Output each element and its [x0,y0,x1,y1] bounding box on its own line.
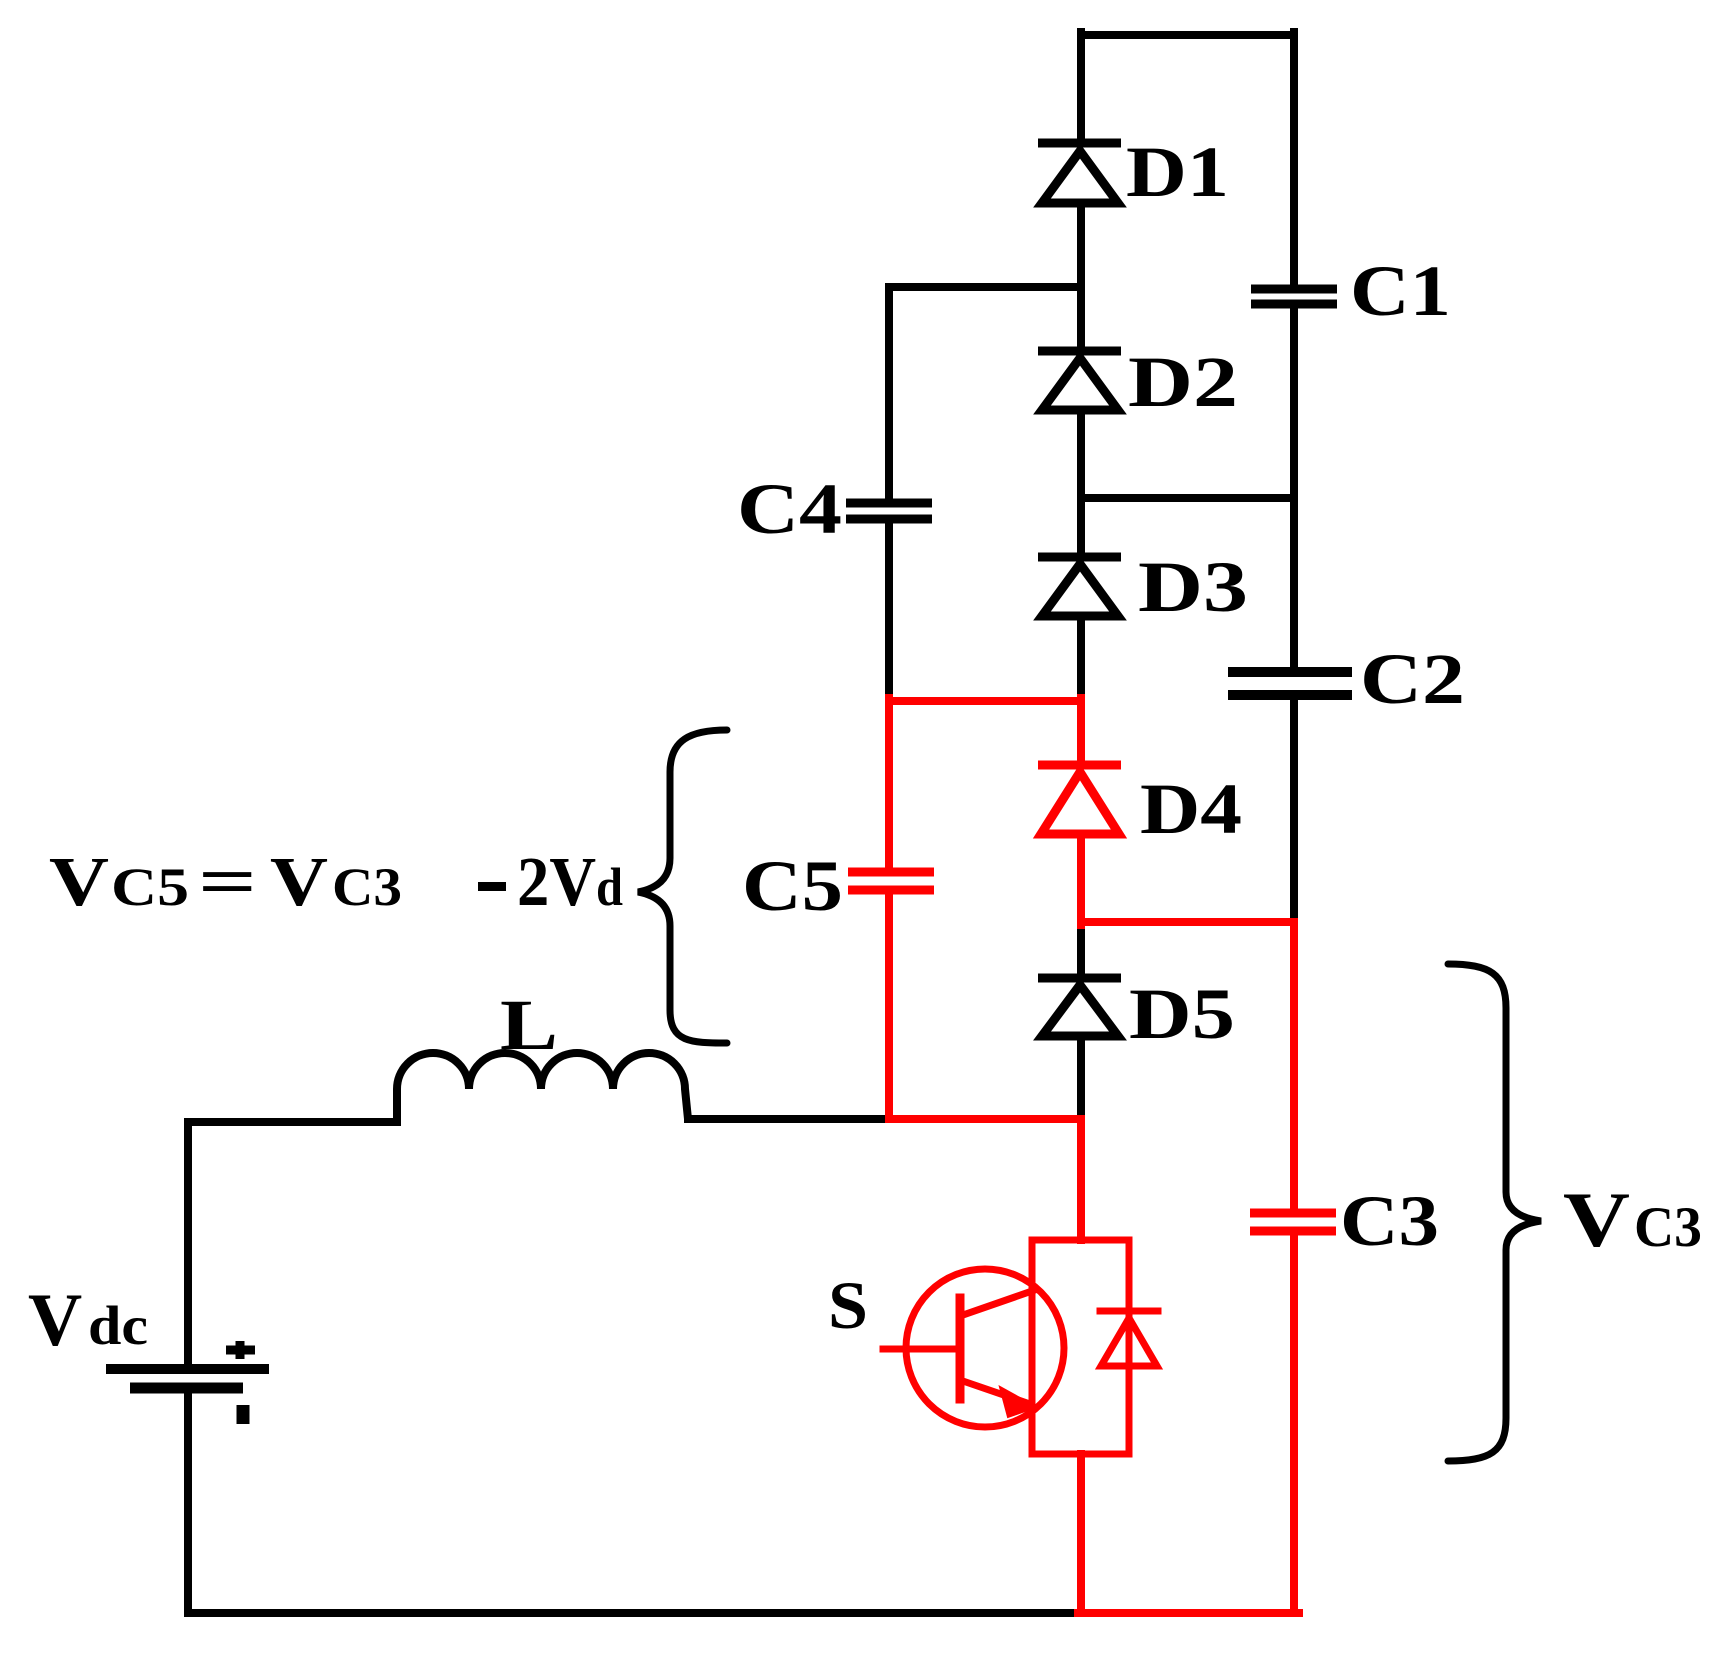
antiparallel diode [1100,1308,1158,1315]
svg-text:C4: C4 [737,469,842,549]
wire horizontal mid-right y498 [1081,494,1294,502]
svg-text:D4: D4 [1140,769,1242,849]
svg-text:V: V [49,844,109,921]
svg-text:D5: D5 [1129,974,1235,1054]
wire red right column to C3 [1290,922,1298,1213]
wire middle column D1 to D2 [1077,207,1085,351]
wire middle column D2 to D3 [1077,413,1085,557]
red wires [889,698,1299,1613]
svg-text:C1: C1 [1350,251,1451,331]
capacitor C3 red [1250,1213,1336,1231]
diode D5 [1038,978,1121,1036]
wire middle column D5 anode black [1077,922,1085,978]
svg-text:2V: 2V [517,844,596,921]
wire bottom rail black [188,1609,1078,1617]
capacitor C2 [1228,672,1352,695]
capacitor C1 [1251,289,1337,304]
capacitor C4 [846,503,932,519]
transistor collector [960,1290,1035,1316]
svg-text:V: V [270,844,328,921]
capacitor C5 red [848,872,934,890]
svg-text:dc: dc [88,1295,148,1356]
svg-text:d: d [596,857,623,917]
transistor base bar [956,1298,965,1399]
svg-text:D1: D1 [1126,132,1229,212]
wire right column C1 to C2 [1290,308,1298,668]
wire left column C4 top [885,287,893,499]
svg-text:V: V [28,1279,82,1362]
svg-text:C3: C3 [1634,1196,1702,1259]
wire red switch to bottom [1077,1454,1085,1613]
svg-text:D2: D2 [1128,342,1238,422]
wire red middle column to switch [1077,1119,1085,1240]
wire left column C4 bottom black [885,524,893,700]
wire left horizontal to inductor [188,1118,397,1126]
wire middle column D5 to node [1077,1040,1085,1119]
inductor L [397,1053,688,1122]
diode D1 [1038,143,1121,203]
battery Vdc [106,1341,269,1424]
wire red middle column D4 to node [1077,838,1085,925]
wire middle column top [1077,32,1085,143]
wire red middle column node to D4 [1077,698,1085,765]
wire red C5 to junction [885,890,893,1119]
transistor base lead [883,1346,960,1353]
wire inductor to junction black [688,1115,889,1123]
svg-text:C3: C3 [1340,1181,1439,1261]
wire C4 branch horizontal [889,283,1081,291]
svg-text:D3: D3 [1138,547,1248,627]
svg-text:C3: C3 [332,857,402,917]
svg-text:C2: C2 [1360,639,1465,719]
wire red horizontal y922 [1081,918,1294,926]
wire top rail [1081,31,1294,39]
transistor emitter arrow [1000,1387,1036,1417]
diode D4 red [1038,765,1121,834]
wire red left column to C5 [885,698,893,872]
wire right column top [1290,32,1298,285]
left brace [638,730,727,1043]
svg-text:V: V [1563,1176,1630,1263]
right brace [1448,964,1541,1461]
wire right column C2 to red node [1290,701,1298,923]
wire left column battery bottom [184,1394,192,1613]
wire red horizontal y701 [889,697,1081,705]
diode D2 [1038,351,1121,410]
svg-text:L: L [500,985,558,1065]
transistor emitter [960,1380,1030,1404]
wire left column battery top [184,1122,192,1364]
transistor circle [906,1269,1064,1427]
svg-text:=: = [198,844,257,921]
switch S module [883,1240,1158,1454]
wire red right column C3 to bottom [1290,1231,1298,1613]
svg-text:S: S [828,1267,868,1343]
diode D3 [1038,557,1121,616]
wire middle column D3 to node [1077,621,1085,700]
wire red junction horizontal y1119 [889,1115,1081,1123]
svg-text:C5: C5 [111,857,189,917]
wire red bottom rail [1078,1609,1299,1617]
switch body rectangle [1032,1240,1129,1454]
svg-text:C5: C5 [742,846,843,926]
